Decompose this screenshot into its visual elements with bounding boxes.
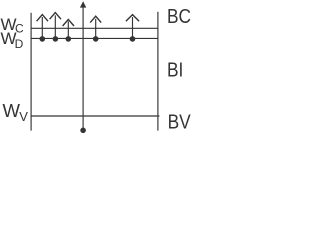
- label WD: [1, 29, 24, 51]
- band gap arrow filled head: [80, 1, 86, 7]
- valence electron dot: [80, 128, 86, 134]
- ionization arrow 2 head: [50, 13, 61, 20]
- svg-text:BI: BI: [167, 59, 183, 81]
- ionization arrow 3 head: [63, 19, 74, 26]
- ionization arrow 1 shaft: [41, 17, 43, 38]
- label WC: [1, 15, 25, 36]
- valence band edge line WV: [31, 115, 160, 117]
- svg-text:D: D: [15, 37, 24, 51]
- donor electron dot 3: [66, 36, 72, 42]
- label WV: [3, 100, 29, 124]
- donor level line WD: [31, 37, 159, 39]
- conduction band edge line WC: [31, 27, 159, 29]
- ionization arrow 5 shaft: [132, 17, 134, 38]
- band gap arrow shaft (tall central arrow): [82, 7, 84, 129]
- donor electron dot 1: [40, 36, 46, 42]
- ionization arrow 4 shaft: [95, 19, 97, 38]
- donor electron dot 2: [53, 36, 59, 42]
- svg-text:BV: BV: [168, 110, 192, 132]
- ionization arrow 1 head: [37, 15, 48, 22]
- ionization arrow 3 shaft: [67, 21, 69, 38]
- energy axis (left vertical line): [30, 13, 32, 131]
- svg-text:V: V: [19, 109, 28, 124]
- ionization arrow 5 head: [126, 15, 139, 22]
- donor electron dot 5: [130, 36, 136, 42]
- ionization arrow 2 shaft: [54, 15, 56, 38]
- svg-text:W: W: [3, 100, 21, 121]
- right boundary vertical line: [157, 12, 159, 131]
- donor electron dot 4: [93, 36, 99, 42]
- ionization arrow 4 head: [90, 16, 101, 22]
- svg-text:BC: BC: [167, 5, 191, 27]
